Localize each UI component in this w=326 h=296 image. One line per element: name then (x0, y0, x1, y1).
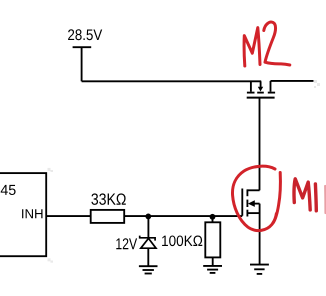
supply label 28.5V (68, 29, 102, 40)
wire top rail left (82, 80, 262, 82)
wire M1 source to ground (259, 204, 261, 265)
label 12V (116, 238, 137, 249)
label M1 (red handwriting, clipped) (294, 179, 325, 213)
wire top rail right (271, 80, 314, 82)
artifact checker (48, 80, 321, 263)
node junction 100K tap (210, 214, 216, 220)
label 45 (1, 185, 16, 195)
pin label INH (22, 209, 42, 218)
annotation circle around M1 (red) (232, 166, 280, 230)
transistor M2 (p-mosfet, horizontal) (247, 81, 275, 98)
ground (zener) (139, 266, 158, 273)
wire INH pin to resistor (46, 215, 91, 217)
ground (100K) (203, 266, 222, 273)
label 100KΩ (162, 236, 202, 247)
wire supply drop (81, 47, 83, 81)
label 33KΩ (91, 193, 125, 205)
wire M2 gate to M1 drain (259, 99, 261, 191)
resistor R? 33K body (91, 210, 125, 223)
wire 100K to ground (212, 257, 214, 266)
zener diode D? 12V (140, 236, 156, 249)
transistor M1 (n-mosfet) (242, 189, 259, 217)
wire node to zener (147, 216, 149, 238)
resistor 100K body (205, 222, 220, 257)
wire node to 100K (212, 217, 214, 223)
node junction zener tap (145, 214, 151, 220)
label M2 (red handwriting) (244, 22, 290, 66)
wire resistor to M1 gate (124, 215, 242, 217)
IC box (partial, U? regulator) (0, 173, 46, 256)
wire zener to ground (147, 248, 149, 266)
ground (M1 source) (250, 265, 269, 274)
supply bar symbol (73, 46, 92, 48)
